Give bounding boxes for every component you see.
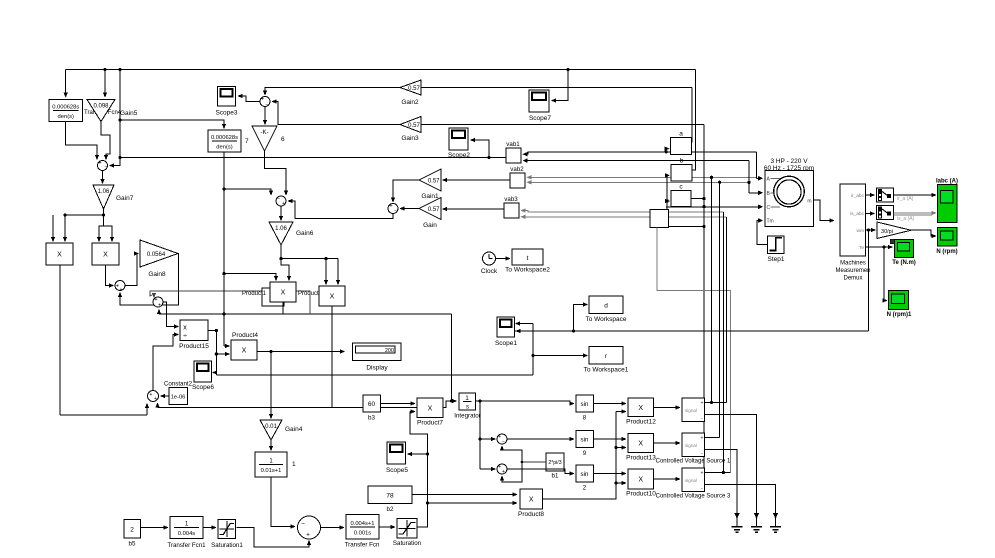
wire 30/pi to N rpm display [911, 230, 933, 236]
product Product11 front [270, 282, 296, 302]
svg-text:Display: Display [366, 365, 388, 372]
ground 1 [736, 513, 738, 516]
svg-text:1: 1 [292, 461, 296, 468]
svg-text:signal: signal [685, 408, 697, 413]
scope Scope2 [449, 128, 468, 150]
svg-text:+: + [261, 97, 264, 103]
product block left (w^2) [46, 243, 73, 265]
svg-text:+: + [306, 532, 310, 539]
svg-text:0.57: 0.57 [408, 123, 420, 129]
wire sum3 up to Product15 divide input [153, 335, 175, 391]
selector block ir [877, 188, 894, 202]
controlled voltage source 3 (phase C) [682, 468, 705, 492]
svg-text:X: X [330, 294, 335, 301]
wire Constant2 to sum3 [164, 395, 169, 397]
wire vab1 v+ (phase A net) [527, 152, 757, 154]
gray staircase wire [657, 228, 730, 473]
wire sum to Gain -K- [264, 107, 266, 122]
svg-text:Scope3: Scope3 [215, 110, 237, 117]
integrator block [459, 393, 476, 410]
wire branch to Scope5 [411, 453, 428, 455]
bus vertical x719.6 [719, 182, 721, 437]
svg-text:X: X [638, 405, 643, 412]
wire y157 to vab1 [120, 157, 506, 159]
svg-text:b2: b2 [387, 506, 394, 513]
svg-text:X: X [638, 441, 643, 448]
wire vab2 output to Gain1 [446, 179, 510, 181]
svg-text:+: + [150, 392, 153, 398]
svg-text:Iabc (A): Iabc (A) [936, 179, 958, 185]
svg-text:−: − [301, 521, 305, 528]
wire Gain3 input [421, 124, 704, 126]
wire sum2 output to Product15 x input [164, 302, 176, 327]
svg-text:0.004s+1: 0.004s+1 [350, 521, 374, 527]
product Product8 [520, 489, 543, 509]
svg-text:Scope7: Scope7 [529, 115, 551, 122]
selector block is [877, 206, 894, 220]
wire Saturation1 to big sum bottom [237, 528, 310, 548]
wire Integrator output net [476, 400, 481, 402]
svg-text:2: 2 [583, 485, 587, 492]
wire big sum to Transfer Fcn [321, 527, 341, 529]
svg-text:C: C [767, 205, 771, 211]
wire Te branch to N rpm1 [883, 247, 885, 301]
svg-text:0.098: 0.098 [93, 104, 109, 110]
bus vertical x723.3 [722, 212, 724, 473]
wire sum5 to sin9 [507, 438, 571, 440]
product Product1 (shadow) [262, 288, 284, 306]
svg-text:t: t [527, 255, 529, 262]
svg-text:x: x [183, 325, 187, 332]
gain Gain [419, 198, 441, 220]
svg-text:+: + [701, 436, 704, 442]
svg-text:Clock: Clock [481, 268, 498, 275]
product Product7 [417, 398, 443, 418]
svg-text:Scope1: Scope1 [495, 340, 517, 347]
wire Product13 to CVS2 [654, 442, 677, 444]
wire left product loop into sum3 [60, 414, 147, 416]
wire x224 to sum (middle) top-left [224, 189, 271, 192]
svg-text:vab3: vab3 [504, 196, 518, 203]
svg-text:Constant2: Constant2 [164, 381, 193, 388]
svg-text:Measuremen: Measuremen [835, 268, 870, 274]
scope Scope3 [218, 87, 236, 107]
svg-text:-K-: -K- [261, 130, 269, 136]
svg-text:Product12: Product12 [626, 419, 656, 426]
constant b2 [368, 486, 412, 504]
svg-text:0.57: 0.57 [408, 86, 420, 92]
svg-text:Product15: Product15 [179, 343, 209, 350]
wire phase C into machine [666, 206, 759, 208]
wire is_abc to selector [866, 213, 871, 215]
svg-text:Tm: Tm [767, 219, 774, 225]
svg-text:Saturation: Saturation [393, 540, 422, 547]
constant Constant2 [169, 388, 188, 405]
wire vertical x120 [119, 70, 121, 158]
sin block 2 [576, 465, 594, 482]
wire to Scope6 [215, 372, 217, 374]
svg-text:To Workspace2: To Workspace2 [505, 267, 550, 274]
svg-text:Gain7: Gain7 [116, 195, 134, 202]
gain Gain1 [419, 169, 441, 191]
svg-text:+: + [154, 396, 157, 402]
svg-text:6: 6 [281, 136, 285, 143]
svg-text:m: m [807, 199, 811, 205]
svg-text:9: 9 [583, 450, 587, 457]
wire to Product4 second input [216, 353, 226, 355]
svg-text:1.06: 1.06 [98, 189, 110, 195]
svg-text:0.01s+1: 0.01s+1 [261, 468, 282, 474]
svg-text:vab2: vab2 [510, 166, 524, 173]
svg-text:200: 200 [385, 348, 394, 354]
svg-text:+: + [502, 469, 505, 475]
wire Gain7 output branch [103, 209, 105, 226]
wire a input riser [665, 149, 668, 152]
to workspace block t [512, 249, 543, 265]
constant b3 [363, 395, 381, 412]
svg-text:0.01: 0.01 [265, 424, 277, 430]
transfer function Transfer Fcn1 [170, 517, 203, 539]
wire y314 horizontal [159, 313, 452, 315]
wire sum to Gain7 [102, 171, 104, 181]
green display N (rpm) [938, 228, 958, 247]
wire scope2 hook [474, 140, 489, 158]
wire to sum5 [480, 438, 492, 440]
wire x704 down to CVS3 [703, 199, 705, 473]
wire product left output long vertical [59, 265, 61, 415]
svg-text:7: 7 [245, 138, 249, 145]
svg-text:Gain8: Gain8 [148, 271, 166, 278]
sin block 9 [576, 431, 594, 448]
svg-text:60: 60 [368, 401, 376, 408]
wire y375 horizontal to Scope1 riser [216, 374, 533, 376]
wire b input stub [666, 174, 667, 176]
svg-text:÷: ÷ [183, 333, 187, 340]
svg-text:0.004s: 0.004s [178, 531, 196, 537]
svg-text:Saturation1: Saturation1 [211, 542, 243, 549]
wire Gain5 to sum [101, 122, 110, 157]
svg-text:N (rpm)1: N (rpm)1 [887, 312, 912, 318]
wire sin9 to Product13 [594, 438, 623, 440]
svg-text:signal: signal [685, 478, 697, 483]
wire CVS plus outputs up the bus [705, 402, 727, 404]
svg-text:Gain4: Gain4 [285, 426, 303, 433]
wire machine m output to demux [814, 200, 831, 221]
wire x533 riser to Scope1 [532, 324, 534, 376]
wire into Transfer Fcn7 [120, 120, 224, 125]
svg-text:+: + [282, 201, 285, 207]
wire branch to Product8 [428, 502, 514, 504]
svg-text:X: X [103, 252, 108, 259]
svg-text:Te: Te [859, 245, 864, 251]
clock block [483, 252, 496, 265]
svg-text:b1: b1 [552, 473, 559, 480]
product (right, flux) [319, 286, 345, 306]
sum sum1 [115, 281, 125, 291]
svg-text:is_abc: is_abc [850, 211, 864, 217]
gain Gain7 [93, 185, 114, 209]
wire into product right inputs [99, 226, 104, 238]
wire Gain2 output to sum top [265, 88, 400, 92]
constant b1 2*pi/3 [546, 453, 564, 471]
svg-text:0.000628s: 0.000628s [52, 105, 79, 111]
green display Te (N.m) [890, 239, 895, 244]
svg-text:1e-06: 1e-06 [171, 395, 186, 401]
svg-text:Te (N.m): Te (N.m) [892, 260, 916, 266]
wire sin8 to Product12 [594, 403, 623, 405]
wire phase A into machine [756, 152, 758, 178]
scope Scope5 [387, 442, 406, 464]
gain Gain5 [87, 100, 115, 122]
wire Saturation up to Product7 [410, 412, 428, 528]
svg-text:den(s): den(s) [216, 145, 233, 151]
wire wm feedback down [868, 230, 870, 331]
wire Te to display [866, 246, 889, 248]
svg-text:Product8: Product8 [518, 511, 544, 518]
svg-text:Transfer Fcn: Transfer Fcn [345, 542, 380, 549]
wire sum middle to Gain6 [280, 206, 282, 217]
wire selector to display (gray) [894, 212, 933, 214]
wire a output to bus [691, 88, 694, 142]
transfer function Transfer Fcn (PI) [346, 515, 379, 540]
svg-text:d: d [604, 303, 608, 310]
svg-text:sin: sin [581, 437, 589, 444]
svg-text:b: b [680, 158, 684, 165]
controlled voltage source 1 (phase B) [682, 433, 705, 457]
wire Gain4 to transfer fcn [270, 440, 272, 447]
wire scope3 hook [242, 96, 260, 102]
svg-text:8: 8 [583, 415, 587, 422]
wire gray line into sum2 [150, 291, 310, 296]
svg-text:Product13: Product13 [626, 455, 656, 462]
wire CVS minus to grounds [705, 415, 757, 514]
wire scope7 feed [555, 70, 568, 101]
gain 30/pi [877, 222, 911, 239]
svg-text:Demux: Demux [843, 276, 862, 282]
svg-text:Scope5: Scope5 [386, 467, 408, 474]
transfer function 1/(0.01s+1) [255, 452, 287, 477]
svg-text:78: 78 [386, 493, 394, 500]
svg-text:Controlled Voltage Source 1: Controlled Voltage Source 1 [656, 459, 731, 465]
vertical x224 from Transfer Fcn7 [223, 152, 225, 346]
display Display [353, 343, 402, 361]
svg-text:3 HP - 220 V: 3 HP - 220 V [770, 158, 808, 165]
svg-text:X: X [638, 477, 643, 484]
wire tf to big sum [271, 477, 292, 527]
gain -K- (6) [252, 126, 277, 151]
wire Transfer Fcn1 to Saturation1 [203, 527, 213, 529]
scope Scope6 [194, 361, 212, 382]
svg-text:0.57: 0.57 [428, 179, 440, 185]
wire vab2 inputs (gray) [531, 176, 757, 178]
ground 3 [775, 513, 777, 516]
svg-text:1.06: 1.06 [275, 226, 287, 232]
svg-text:X: X [529, 497, 534, 504]
wire Product12 to CVS1 [654, 407, 677, 409]
gain Gain8 [140, 240, 178, 267]
to workspace block d [589, 296, 623, 314]
svg-text:Product1: Product1 [242, 291, 267, 297]
svg-text:Integrator: Integrator [454, 413, 480, 420]
svg-text:Transfer Fcn1: Transfer Fcn1 [167, 542, 206, 549]
sin block 8 [576, 395, 594, 412]
bus vertical phase A x711.5 [711, 177, 713, 402]
svg-text:0.000628s: 0.000628s [211, 135, 238, 141]
svg-text:Gain: Gain [423, 222, 437, 229]
wire into Transfer Fcn4 [65, 70, 67, 94]
saturation Saturation [397, 519, 417, 539]
wire to sin 8 [480, 401, 571, 404]
wire Product10 to CVS3 [654, 478, 677, 480]
product Product12 [628, 398, 654, 417]
svg-text:b5: b5 [129, 541, 136, 548]
svg-text:0.57: 0.57 [428, 207, 440, 213]
product block right (w^2) [92, 243, 119, 265]
wire Gain3 output to sum right [276, 102, 401, 125]
constant b5 [124, 520, 141, 539]
svg-text:Scope6: Scope6 [192, 384, 214, 391]
svg-text:Step1: Step1 [768, 256, 785, 263]
wire y407 slip feedback [158, 407, 447, 409]
sum junction speed error [98, 161, 108, 171]
voltage measurement b [671, 165, 692, 182]
svg-text:Gain3: Gain3 [401, 135, 419, 142]
wire sin2 to Product10 [594, 473, 623, 475]
svg-text:To Workspace: To Workspace [585, 316, 626, 323]
block vab2 [510, 173, 525, 188]
wire sum1 to Gain8 [125, 254, 137, 286]
small block below c [650, 210, 669, 228]
wire to To Workspace1 [533, 355, 584, 357]
svg-text:ir_abc: ir_abc [851, 193, 865, 199]
svg-text:is_a (A): is_a (A) [897, 216, 915, 222]
sum sum2 [153, 297, 163, 307]
svg-text:Gain6: Gain6 [296, 230, 314, 237]
transfer function Transfer Fcn4 [49, 100, 83, 122]
svg-text:−: − [266, 102, 269, 108]
svg-text:X: X [281, 290, 286, 297]
svg-text:sin: sin [581, 401, 589, 408]
wire to To Workspace d [574, 305, 585, 332]
wire sum6 to sin2 [507, 469, 571, 474]
controlled voltage source (phase A) [682, 398, 705, 422]
svg-text:ir_a (A): ir_a (A) [897, 196, 914, 202]
wire right product down to y407 [331, 306, 333, 408]
wire b output to top bus [692, 70, 696, 171]
block vab3 [504, 203, 519, 218]
ground 2 [756, 513, 758, 516]
to workspace block r [589, 347, 623, 365]
svg-text:Gain5: Gain5 [120, 110, 138, 117]
svg-text:b3: b3 [368, 415, 375, 422]
wire wm long horizontal y331 [515, 330, 869, 332]
sum (middle, torque) [276, 196, 286, 206]
svg-text:a: a [679, 131, 683, 138]
wire Transfer Fcn4 to sum [66, 122, 97, 157]
big sum (speed regulator) [298, 516, 321, 539]
voltage measurement c [671, 191, 691, 207]
svg-text:0.001s: 0.001s [354, 530, 372, 536]
svg-text:+: + [498, 464, 501, 470]
vertical x667 phase C tap [666, 175, 668, 209]
sum sum3 (slip+speed) [148, 391, 159, 402]
svg-text:wm: wm [857, 229, 864, 234]
svg-text:s: s [466, 405, 469, 411]
product Product10 [628, 469, 654, 489]
wire Product15 output net [208, 330, 216, 332]
svg-text:To Workspace1: To Workspace1 [584, 367, 629, 374]
wire x224 into Product4 first input [224, 345, 226, 347]
wire phase B into machine [748, 161, 750, 193]
svg-text:Product4: Product4 [232, 332, 258, 339]
machines measurement demux [840, 184, 866, 256]
wire selector to Iabc display [894, 194, 933, 196]
wire b3 to Product7 [381, 403, 412, 405]
voltage measurement a [671, 138, 692, 155]
svg-text:+: + [98, 161, 101, 167]
wire into Gain5 [104, 70, 106, 94]
svg-text:Product10: Product10 [626, 491, 656, 498]
svg-text:den(s): den(s) [58, 114, 75, 120]
gain Gain6 [269, 222, 293, 245]
svg-text:30/pi: 30/pi [881, 229, 893, 235]
svg-text:vab1: vab1 [506, 141, 520, 148]
svg-text:signal: signal [685, 443, 697, 448]
gain Gain3 [400, 117, 421, 133]
wire Product4 to Display [257, 351, 341, 353]
wire c output to bus [691, 125, 704, 199]
svg-text:X: X [428, 405, 433, 412]
wire Product11 down to y314 [282, 302, 284, 314]
wire top bus b-phase [66, 69, 696, 71]
gray wire x310 [309, 291, 311, 314]
svg-text:Gain1: Gain1 [421, 193, 439, 200]
svg-text:−: − [394, 208, 397, 214]
svg-text:Product7: Product7 [417, 420, 443, 427]
sum sum4 [388, 204, 398, 214]
transfer function Transfer Fcn7 [208, 130, 241, 152]
wire x224 to Product11 first input [224, 274, 276, 277]
wire vab1 v- (phase B net) [527, 160, 750, 162]
wire c input stub [666, 200, 667, 202]
wire product right output to sum1 [106, 265, 111, 286]
svg-text:+: + [498, 434, 501, 440]
product Product4 [231, 340, 257, 360]
svg-text:−: − [277, 196, 280, 202]
svg-text:Gain2: Gain2 [401, 99, 419, 106]
sum sum6 [497, 464, 507, 474]
svg-text:N (rpm): N (rpm) [936, 249, 957, 255]
svg-text:+: + [158, 303, 161, 309]
wire Gain8 feedback loop [120, 254, 179, 306]
svg-text:−: − [104, 165, 107, 171]
wire Gain1 to sum4 [393, 180, 419, 199]
wire vab3 inputs (gray) [525, 211, 724, 212]
svg-text:sin: sin [581, 471, 589, 478]
wire small block to bus [669, 226, 705, 228]
gain Gain4 [270, 352, 272, 416]
product Product15 [180, 320, 208, 341]
svg-text:+: + [389, 204, 392, 210]
sum sum5 [497, 434, 507, 444]
svg-text:0.0564: 0.0564 [147, 252, 166, 258]
wire x120 into sum right [113, 158, 120, 166]
product Product13 [628, 434, 654, 453]
svg-text:X: X [242, 348, 247, 355]
saturation Saturation1 [218, 520, 236, 539]
svg-text:2: 2 [130, 527, 134, 534]
wire Product8 output to modulators [543, 412, 617, 500]
